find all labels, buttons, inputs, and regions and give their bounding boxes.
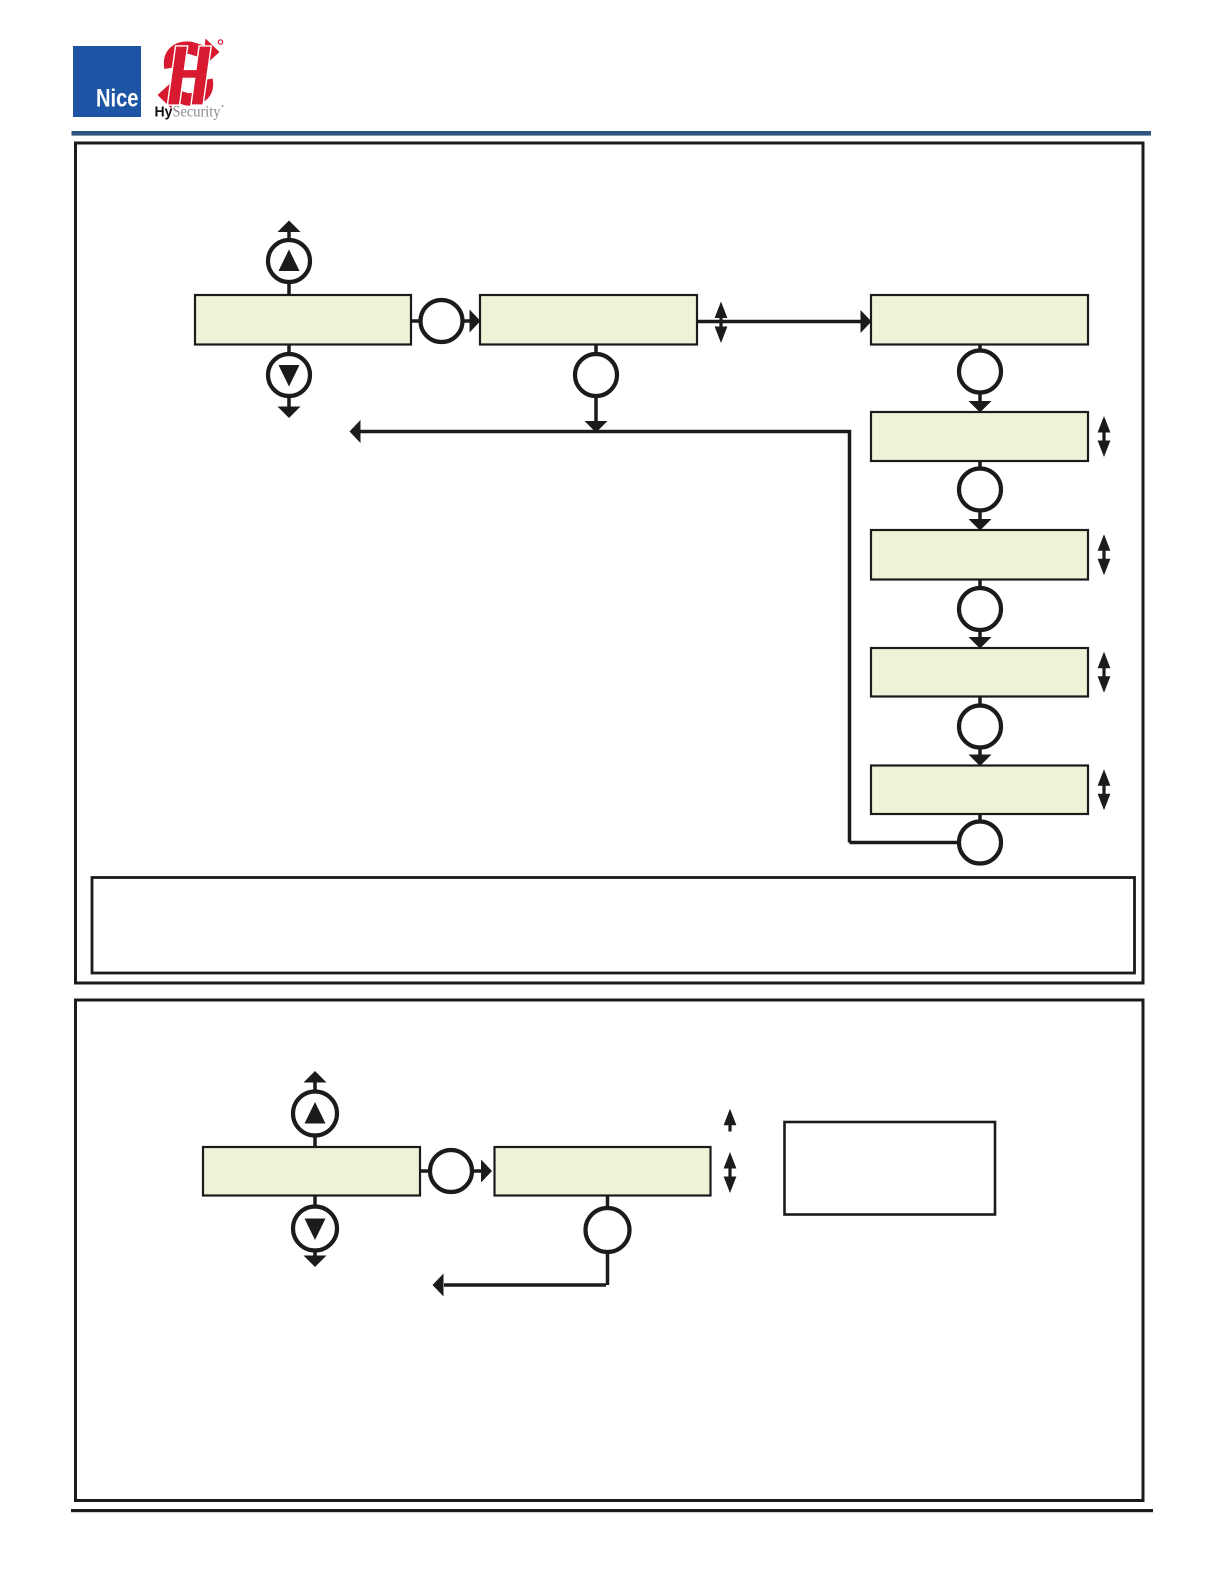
- svg-text:Security: Security: [173, 104, 221, 121]
- svg-text:Hy: Hy: [155, 104, 174, 121]
- svg-text:Nice: Nice: [96, 85, 139, 113]
